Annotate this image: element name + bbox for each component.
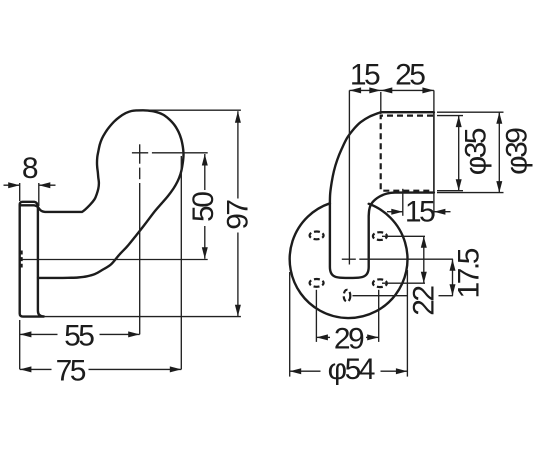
- svg-text:15: 15: [405, 196, 435, 229]
- dimension 50: [204, 154, 206, 190]
- elbow tube + stem outline: [330, 112, 434, 278]
- dimension 8: [19, 183, 21, 201]
- dimension 22: [423, 236, 425, 283]
- svg-text:55: 55: [64, 319, 94, 352]
- bracket arm outline (neck, head, sweep): [20, 110, 184, 278]
- bottom extension line: [44, 316, 241, 318]
- hidden socket (rail insertion, dashed): [381, 116, 433, 191]
- dimension phi39: [437, 111, 504, 113]
- dimension phi54: [289, 272, 291, 377]
- stem centreline: [348, 90, 350, 264]
- screw hole top-right (dashed slot): [373, 232, 387, 240]
- screw hole bottom-left (dashed slot): [310, 279, 324, 287]
- svg-text:97: 97: [221, 200, 254, 230]
- dimension phi35: [437, 115, 463, 117]
- svg-text:φ54: φ54: [328, 353, 375, 386]
- svg-text:25: 25: [395, 59, 425, 92]
- svg-text:17.5: 17.5: [453, 248, 486, 298]
- centre cross of rail (left view): [132, 152, 148, 154]
- mid extension line (50 bottom): [22, 259, 208, 261]
- svg-text:φ39: φ39: [501, 128, 534, 175]
- dimension 75: [20, 368, 52, 370]
- dimension 97: [237, 111, 239, 198]
- dimension 29: [315, 290, 317, 342]
- tube end edge: [433, 112, 435, 192]
- top extension line: [150, 109, 241, 111]
- leader from bottom-right screw hole: [382, 282, 425, 284]
- dimension 15 / 25 (top): [349, 89, 434, 91]
- screw hole bottom-right (dashed slot): [373, 279, 387, 287]
- centre cross (right view): [342, 258, 356, 260]
- hidden screw hole dash on plate: [21, 251, 23, 268]
- dimension 17.5: [452, 259, 454, 296]
- svg-text:29: 29: [334, 322, 364, 355]
- svg-text:22: 22: [407, 286, 440, 316]
- leader from bottom set-screw hole: [353, 295, 408, 297]
- svg-text:8: 8: [22, 152, 38, 185]
- svg-text:15: 15: [350, 59, 380, 92]
- dimension 15 (tube end to stem centre): [402, 189, 404, 216]
- svg-text:50: 50: [187, 192, 220, 222]
- screw hole top-left (dashed slot): [310, 232, 324, 240]
- dimension 55: [20, 333, 58, 335]
- wall plate outline: [20, 202, 44, 317]
- svg-text:φ35: φ35: [460, 128, 493, 175]
- leader from top-right screw hole: [382, 235, 425, 237]
- bottom set-screw hole (dashed): [344, 290, 351, 302]
- wall flange circle (phi54), top hidden behind stem: [290, 203, 408, 318]
- svg-text:75: 75: [56, 354, 86, 387]
